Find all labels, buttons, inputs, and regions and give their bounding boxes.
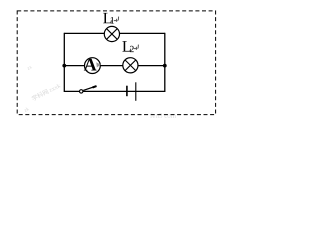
paragraph mark after L1 xyxy=(114,17,119,22)
wire: top branch horizontal xyxy=(64,32,165,34)
node right junction dot xyxy=(163,64,167,68)
watermark diagonal text xyxy=(24,65,62,114)
wire: bottom loop horizontal xyxy=(64,90,165,92)
wire: middle branch horizontal xyxy=(64,65,165,67)
switch S1 pivot xyxy=(80,90,83,93)
lamp L2 xyxy=(123,58,138,73)
ammeter A (U1) xyxy=(84,58,100,74)
battery cell long plate (positive) xyxy=(135,82,137,101)
label L2 xyxy=(122,41,133,52)
watermark wedge near ammeter xyxy=(96,62,101,67)
dashed border frame xyxy=(17,11,215,115)
svg-text:fen5 com: fen5 com xyxy=(150,112,177,119)
wire: left vertical xyxy=(63,33,65,92)
battery cell short plate (negative) xyxy=(126,86,128,97)
switch S1 blade xyxy=(83,86,96,90)
wire: right vertical xyxy=(164,33,166,92)
node left junction dot xyxy=(62,64,66,68)
lamp L1 xyxy=(104,26,119,41)
label L1 xyxy=(103,13,114,24)
paragraph mark after L2 xyxy=(134,45,139,50)
